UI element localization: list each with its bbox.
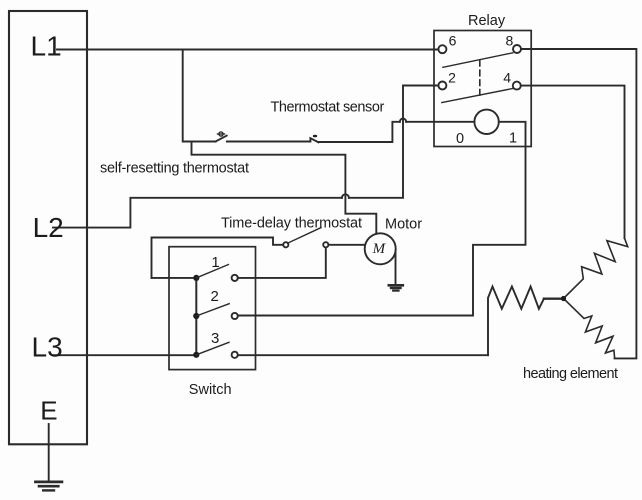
svg-text:Relay: Relay xyxy=(468,13,506,29)
svg-text:4: 4 xyxy=(503,69,511,85)
svg-text:2: 2 xyxy=(448,70,456,86)
svg-text:M: M xyxy=(372,241,387,257)
svg-text:Motor: Motor xyxy=(385,216,422,232)
svg-text:Time-delay thermostat: Time-delay thermostat xyxy=(221,215,362,231)
svg-text:6: 6 xyxy=(449,33,457,49)
svg-text:0: 0 xyxy=(456,131,464,147)
svg-text:self-resetting thermostat: self-resetting thermostat xyxy=(100,161,249,177)
svg-text:L1: L1 xyxy=(31,31,62,62)
svg-text:3: 3 xyxy=(211,330,219,347)
svg-text:E: E xyxy=(40,396,57,426)
svg-text:heating element: heating element xyxy=(523,366,618,382)
svg-text:Thermostat sensor: Thermostat sensor xyxy=(271,100,385,116)
svg-text:1: 1 xyxy=(211,254,219,271)
svg-text:2: 2 xyxy=(211,288,219,305)
svg-text:1: 1 xyxy=(509,130,517,146)
svg-text:8: 8 xyxy=(506,32,514,48)
svg-text:L2: L2 xyxy=(33,212,64,243)
svg-text:L3: L3 xyxy=(32,332,63,363)
svg-text:Switch: Switch xyxy=(189,382,232,398)
